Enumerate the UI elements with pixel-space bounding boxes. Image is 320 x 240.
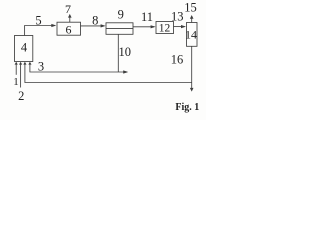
arrowhead up input 1 <box>15 62 18 65</box>
block 9 midline <box>106 28 133 30</box>
svg-text:Fig. 1: Fig. 1 <box>175 102 199 113</box>
arrowhead into block 14 <box>181 25 186 28</box>
svg-text:9: 9 <box>118 7 124 21</box>
arrowhead up 7 <box>68 14 72 18</box>
svg-text:12: 12 <box>159 23 171 35</box>
wire 13 (block12 to block14) <box>174 26 185 28</box>
svg-text:14: 14 <box>185 27 197 41</box>
box 4 <box>15 36 33 62</box>
svg-text:6: 6 <box>66 22 72 36</box>
wire 3 (upper horizontal from box4 bottom, joined by wire 10) <box>30 64 127 72</box>
wire 16 (block14 bottom down to outlet) <box>191 46 193 88</box>
input line 1 (stub into box4 bottom) <box>15 64 17 75</box>
arrowhead up input (recycle wire) <box>23 62 26 65</box>
wire 11 (block9 to block12) <box>133 26 154 28</box>
svg-text:13: 13 <box>171 9 184 23</box>
arrowhead up 15 <box>190 15 194 19</box>
svg-text:3: 3 <box>38 59 44 73</box>
block 14 <box>187 23 198 47</box>
svg-text:15: 15 <box>184 0 197 14</box>
input line 2 <box>20 64 22 87</box>
wire 5 (box4 top to block6) <box>25 26 55 36</box>
arrowhead into block 6 <box>51 24 56 27</box>
svg-text:10: 10 <box>119 45 132 59</box>
wire 7 (block6 up output) <box>69 17 71 22</box>
wire 15 (block14 up output) <box>191 18 193 22</box>
arrowhead up input 3 <box>28 62 31 65</box>
wire 10 (block9 down to junction) <box>117 34 119 72</box>
svg-text:8: 8 <box>92 13 98 27</box>
recycle wire (box4 bottom elbow to outlet vertical, lower horizontal) <box>25 64 192 82</box>
block 12 <box>156 22 174 34</box>
svg-text:1: 1 <box>13 76 19 88</box>
arrowhead into block 12 <box>151 25 156 28</box>
block 6 <box>57 22 81 35</box>
block 9 <box>106 23 133 35</box>
arrowhead down outlet 16 <box>190 88 194 92</box>
arrowhead into block 9 <box>101 24 106 27</box>
arrowhead up input 2 <box>19 62 22 65</box>
arrowhead right end of wire 3 <box>123 70 128 73</box>
svg-text:7: 7 <box>65 2 71 16</box>
svg-text:11: 11 <box>141 10 153 24</box>
wire 8 (block6 to block9) <box>81 25 105 27</box>
svg-text:16: 16 <box>171 52 184 66</box>
svg-text:5: 5 <box>35 14 41 28</box>
svg-text:2: 2 <box>18 89 24 103</box>
svg-text:4: 4 <box>21 41 28 55</box>
